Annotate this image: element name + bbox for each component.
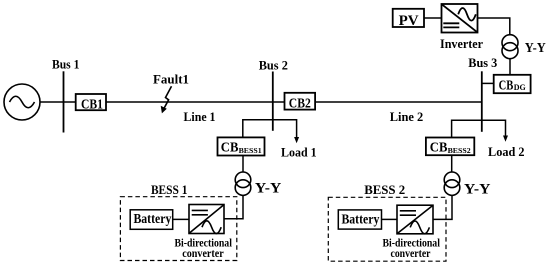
svg-text:BESS 2: BESS 2 [364, 182, 405, 197]
circuit breaker CBDG [494, 75, 531, 93]
svg-text:Battery: Battery [133, 211, 171, 226]
bus 2 [272, 72, 274, 131]
wire Line 2 (CB2 to bus 3) [315, 101, 482, 103]
wire battery 1 to converter 1 [173, 218, 189, 220]
wire branch to CBBESS2 and Load 2 [452, 120, 506, 137]
wire bus 3 to CBDG [482, 82, 494, 84]
circuit breaker CB1 [76, 94, 106, 111]
battery box Battery 2 [338, 210, 381, 229]
wire CBBESS1 to transformer T1 [242, 156, 244, 173]
svg-text:Line 2: Line 2 [390, 109, 424, 124]
svg-text:Bus 1: Bus 1 [52, 57, 80, 72]
svg-text:Bus 2: Bus 2 [259, 57, 288, 72]
svg-text:DG: DG [514, 83, 526, 92]
converter U2 (bi-directional) [397, 205, 433, 234]
wire inverter to transformer T3 [478, 18, 510, 35]
wire T1 to converter 1 [224, 195, 243, 218]
battery box Battery 1 [130, 210, 173, 230]
bus 1 [63, 71, 65, 132]
wire Line 1 (CB1 to CB2) [106, 101, 285, 103]
svg-text:Y-Y: Y-Y [255, 181, 282, 197]
label Bi-directional converter 1 [174, 235, 232, 259]
bus 3 [481, 71, 483, 132]
arrow Load 1 [294, 137, 299, 143]
svg-text:CB2: CB2 [289, 96, 311, 111]
transformer T1 (Y-Y) [235, 172, 251, 195]
svg-text:Fault1: Fault1 [153, 72, 189, 87]
wire CBBESS2 to transformer T2 [451, 155, 453, 172]
circuit breaker CB2 [285, 93, 316, 111]
svg-text:Y-Y: Y-Y [464, 182, 491, 198]
svg-text:PV: PV [399, 13, 419, 29]
svg-text:CB1: CB1 [81, 96, 103, 111]
svg-text:Load 2: Load 2 [488, 144, 525, 159]
wire T2 to converter 2 [433, 195, 452, 219]
dashed box BESS 1 [120, 197, 236, 261]
PV source box [393, 9, 424, 29]
generator G [4, 84, 40, 120]
svg-text:BESS 1: BESS 1 [151, 182, 188, 197]
wire battery 2 to converter 2 [382, 218, 398, 220]
svg-text:converter: converter [182, 246, 224, 260]
converter U1 (bi-directional) [189, 205, 224, 234]
fault bolt Fault1 [161, 86, 172, 113]
dashed box BESS 2 [328, 197, 446, 261]
svg-text:Y-Y: Y-Y [525, 41, 546, 56]
inverter U3 [442, 4, 478, 33]
label Bi-directional converter 2 [382, 235, 440, 259]
svg-text:Bus 3: Bus 3 [468, 55, 497, 70]
svg-text:BESS1: BESS1 [239, 146, 262, 155]
svg-text:converter: converter [391, 246, 432, 260]
transformer T2 (Y-Y) [444, 172, 460, 195]
wire generator to CB1 [40, 101, 76, 103]
svg-text:Battery: Battery [341, 211, 379, 226]
wire PV to inverter [424, 17, 442, 19]
transformer T3 (Y-Y) [502, 35, 518, 59]
wire T3 to CBDG [509, 59, 511, 75]
svg-text:Load 1: Load 1 [281, 144, 317, 159]
svg-text:CB: CB [499, 77, 514, 92]
arrow Load 2 [503, 136, 508, 142]
circuit breaker CBBESS1 [218, 137, 265, 155]
circuit breaker CBBESS2 [426, 138, 474, 156]
svg-text:BESS2: BESS2 [448, 146, 471, 155]
svg-text:Inverter: Inverter [440, 36, 483, 51]
svg-text:CB: CB [430, 140, 448, 155]
svg-text:Line 1: Line 1 [184, 109, 216, 124]
wire branch to CBBESS1 and Load 1 [243, 120, 297, 139]
svg-text:CB: CB [221, 140, 239, 155]
